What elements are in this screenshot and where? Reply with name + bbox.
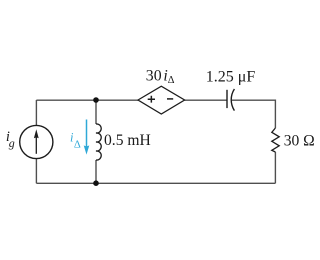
- current arrow i-delta (cyan): [84, 120, 90, 155]
- wire: inductor branch lower lead: [95, 160, 97, 183]
- svg-text:g: g: [9, 136, 15, 150]
- svg-text:0.5 mH: 0.5 mH: [104, 132, 151, 149]
- node: junction dot top (between source and inductor): [93, 97, 99, 103]
- inductor L 0.5 mH: coil: [96, 124, 101, 160]
- dependent source U1: diamond body: [138, 86, 185, 114]
- svg-text:1.25 μF: 1.25 μF: [206, 69, 256, 86]
- resistor R 30 ohm: zigzag: [272, 128, 279, 152]
- capacitor C 1.25 uF: left (straight) plate: [226, 90, 228, 108]
- label i-delta (cyan): [70, 130, 81, 150]
- svg-text:30 Ω: 30 Ω: [284, 133, 315, 150]
- capacitor: right (curved) plate: [231, 89, 234, 111]
- wire: capacitor to top-right corner and down right side: [232, 100, 276, 128]
- current source ig: arrow shaft: [35, 137, 37, 154]
- wire: top-left horizontal segment (node a): [36, 99, 138, 101]
- svg-text:30: 30: [146, 68, 162, 85]
- dependent source: plus sign: [148, 96, 155, 103]
- svg-text:Δ: Δ: [168, 75, 175, 86]
- node: junction dot bottom: [93, 180, 99, 186]
- wire: bottom horizontal segment: [36, 182, 275, 184]
- wire: left side below current source: [35, 159, 37, 184]
- svg-text:Δ: Δ: [74, 138, 81, 150]
- current source ig: circle: [20, 125, 53, 158]
- wire: right side below resistor: [274, 152, 276, 183]
- wire: top-right segment from dependent source to capacitor: [185, 99, 227, 101]
- current source ig: arrowhead: [34, 129, 39, 138]
- wire: inductor branch upper lead: [95, 100, 97, 124]
- wire: left side above current source: [35, 100, 37, 126]
- dependent source: minus sign: [167, 98, 173, 100]
